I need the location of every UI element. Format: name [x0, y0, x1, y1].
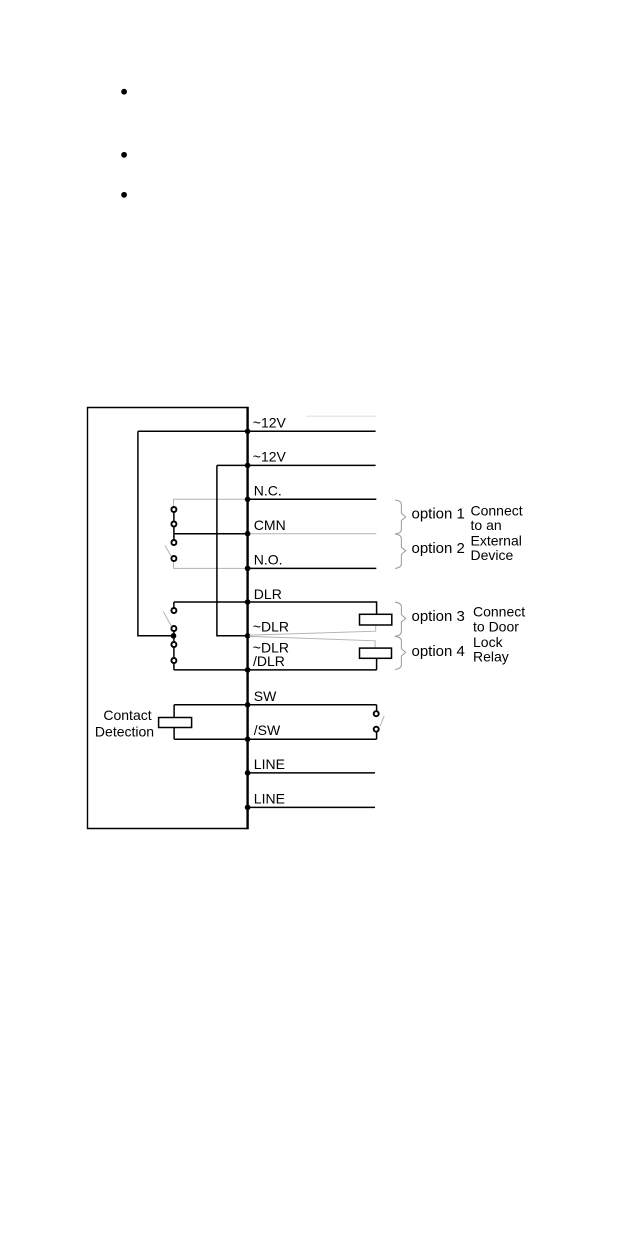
brace option 3	[395, 602, 406, 636]
svg-text:Device: Device	[471, 547, 514, 563]
wire from ~12V terminal 1 down to switch SW2 common	[138, 431, 171, 636]
node terminal 1 junction	[245, 429, 251, 435]
svg-text:Relay: Relay	[473, 648, 509, 664]
svg-text:to an: to an	[471, 517, 502, 533]
brace option 1	[395, 500, 406, 534]
node terminal DLR junction	[245, 599, 251, 605]
switch SW1 changeover contacts	[171, 507, 176, 561]
faint remnant rule above ~12V	[306, 415, 377, 417]
node terminal SW junction	[245, 702, 251, 708]
node terminal CMN junction	[245, 531, 251, 537]
svg-text:N.O.: N.O.	[254, 552, 283, 568]
wire DLR	[174, 602, 377, 614]
wire N.C. gray segment to switch SW1	[174, 499, 248, 507]
node terminal LINE 1 junction	[245, 770, 251, 776]
node terminal 2 junction	[245, 463, 251, 469]
wire from ~12V terminal 2 down to ~DLR terminal	[217, 465, 245, 635]
svg-text:~12V: ~12V	[253, 449, 287, 465]
terminal bus (right edge of box)	[246, 407, 248, 829]
wire ~12V (terminal 1)	[138, 430, 376, 432]
main unit enclosure box	[88, 408, 248, 829]
node terminal N.C. junction	[245, 497, 251, 503]
svg-text:option 3: option 3	[412, 608, 465, 625]
svg-text:to Door: to Door	[473, 619, 519, 635]
wire /DLR	[174, 669, 377, 671]
svg-text:LINE: LINE	[254, 790, 285, 806]
contact detection sensor box	[159, 718, 192, 728]
wire CMN gray segment	[248, 533, 377, 535]
bullet 2	[121, 152, 127, 158]
relay coil K1 (option 3)	[360, 614, 392, 625]
switch SW2 contacts	[171, 602, 176, 670]
node switch SW2 common junction	[171, 633, 177, 639]
bullet 1	[121, 89, 127, 95]
svg-text:option 2: option 2	[412, 540, 465, 557]
svg-text:CMN: CMN	[254, 517, 286, 533]
wire LINE (terminal 12)	[248, 806, 375, 808]
relay coil K2 (option 4)	[360, 648, 392, 658]
svg-text:Connect: Connect	[473, 604, 525, 620]
wire N.C.	[248, 498, 377, 500]
wire gray link ~DLR to relay K2	[250, 636, 376, 648]
svg-text:option 1: option 1	[412, 506, 465, 523]
bullet 3	[121, 192, 127, 198]
svg-text:Contact: Contact	[103, 707, 151, 723]
brace option 2	[395, 534, 406, 568]
node terminal LINE 2 junction	[245, 805, 251, 811]
wire gray link ~DLR to relay K1	[250, 625, 376, 635]
door switch SW3 open arm	[380, 716, 384, 726]
svg-text:DLR: DLR	[254, 586, 282, 602]
svg-text:option 4: option 4	[412, 643, 465, 660]
node terminal ~DLR junction	[245, 633, 251, 639]
wire N.O.	[248, 567, 377, 569]
wire /SW	[174, 738, 377, 740]
wire N.O. gray segment to switch SW1	[174, 561, 248, 568]
wire contact-detection branch	[173, 705, 175, 739]
node terminal N.O. junction	[245, 566, 251, 572]
switch SW2 open arm	[163, 612, 171, 627]
door switch SW3	[374, 705, 379, 739]
svg-text:N.C.: N.C.	[254, 483, 282, 499]
svg-text:LINE: LINE	[254, 756, 285, 772]
svg-text:~DLR: ~DLR	[253, 619, 289, 635]
wire relay K2 to /DLR	[376, 658, 378, 670]
node terminal /DLR junction	[245, 667, 251, 673]
svg-text:~12V: ~12V	[253, 414, 287, 430]
node terminal /SW junction	[245, 736, 251, 742]
label Connect to an External Device	[471, 503, 523, 563]
wire LINE (terminal 11)	[248, 772, 375, 774]
svg-text:/SW: /SW	[254, 722, 281, 738]
wire CMN	[174, 533, 248, 535]
switch SW1 open arm	[165, 546, 171, 557]
brace option 4	[395, 636, 406, 669]
svg-text:/DLR: /DLR	[253, 653, 285, 669]
svg-text:SW: SW	[254, 688, 277, 704]
wire SW	[174, 704, 377, 706]
label Connect to Door Lock Relay	[473, 604, 525, 665]
svg-text:Detection: Detection	[95, 724, 154, 740]
wire ~12V (terminal 2)	[217, 464, 376, 466]
